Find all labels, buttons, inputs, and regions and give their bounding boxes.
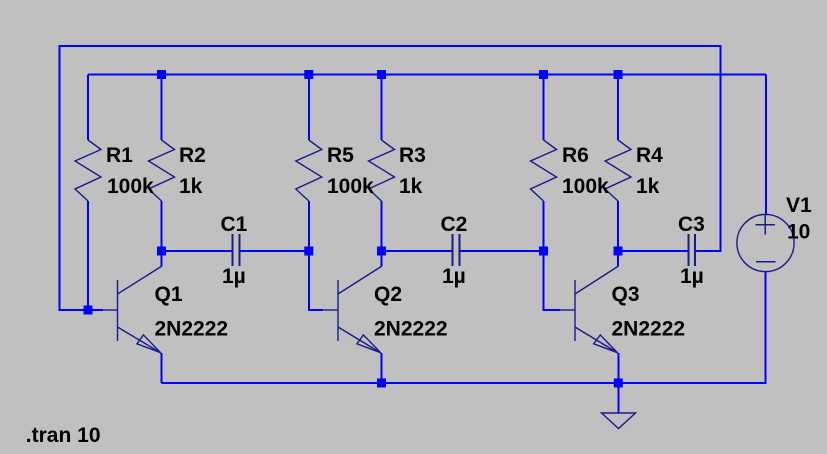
svg-text:100k: 100k — [327, 175, 374, 198]
svg-text:10: 10 — [787, 221, 810, 244]
svg-text:R6: R6 — [562, 144, 589, 167]
svg-text:1µ: 1µ — [680, 265, 704, 288]
svg-text:Q3: Q3 — [612, 283, 640, 306]
svg-text:R1: R1 — [106, 144, 133, 167]
svg-text:1k: 1k — [179, 175, 203, 198]
svg-text:R2: R2 — [179, 144, 206, 167]
svg-text:R4: R4 — [636, 144, 663, 167]
svg-text:V1: V1 — [786, 194, 812, 217]
svg-text:1µ: 1µ — [442, 265, 466, 288]
svg-text:1k: 1k — [636, 175, 660, 198]
svg-text:100k: 100k — [107, 175, 154, 198]
svg-text:1k: 1k — [399, 175, 423, 198]
svg-text:Q2: Q2 — [374, 283, 402, 306]
svg-text:R5: R5 — [327, 144, 354, 167]
svg-text:C2: C2 — [441, 213, 468, 236]
svg-text:1µ: 1µ — [222, 265, 246, 288]
svg-text:2N2222: 2N2222 — [612, 318, 686, 341]
svg-text:2N2222: 2N2222 — [155, 318, 229, 341]
svg-text:C3: C3 — [678, 213, 705, 236]
svg-text:.tran 10: .tran 10 — [26, 424, 101, 447]
svg-text:100k: 100k — [562, 175, 609, 198]
svg-text:Q1: Q1 — [155, 283, 183, 306]
svg-text:R3: R3 — [399, 144, 426, 167]
svg-text:C1: C1 — [221, 213, 248, 236]
svg-text:2N2222: 2N2222 — [374, 318, 448, 341]
